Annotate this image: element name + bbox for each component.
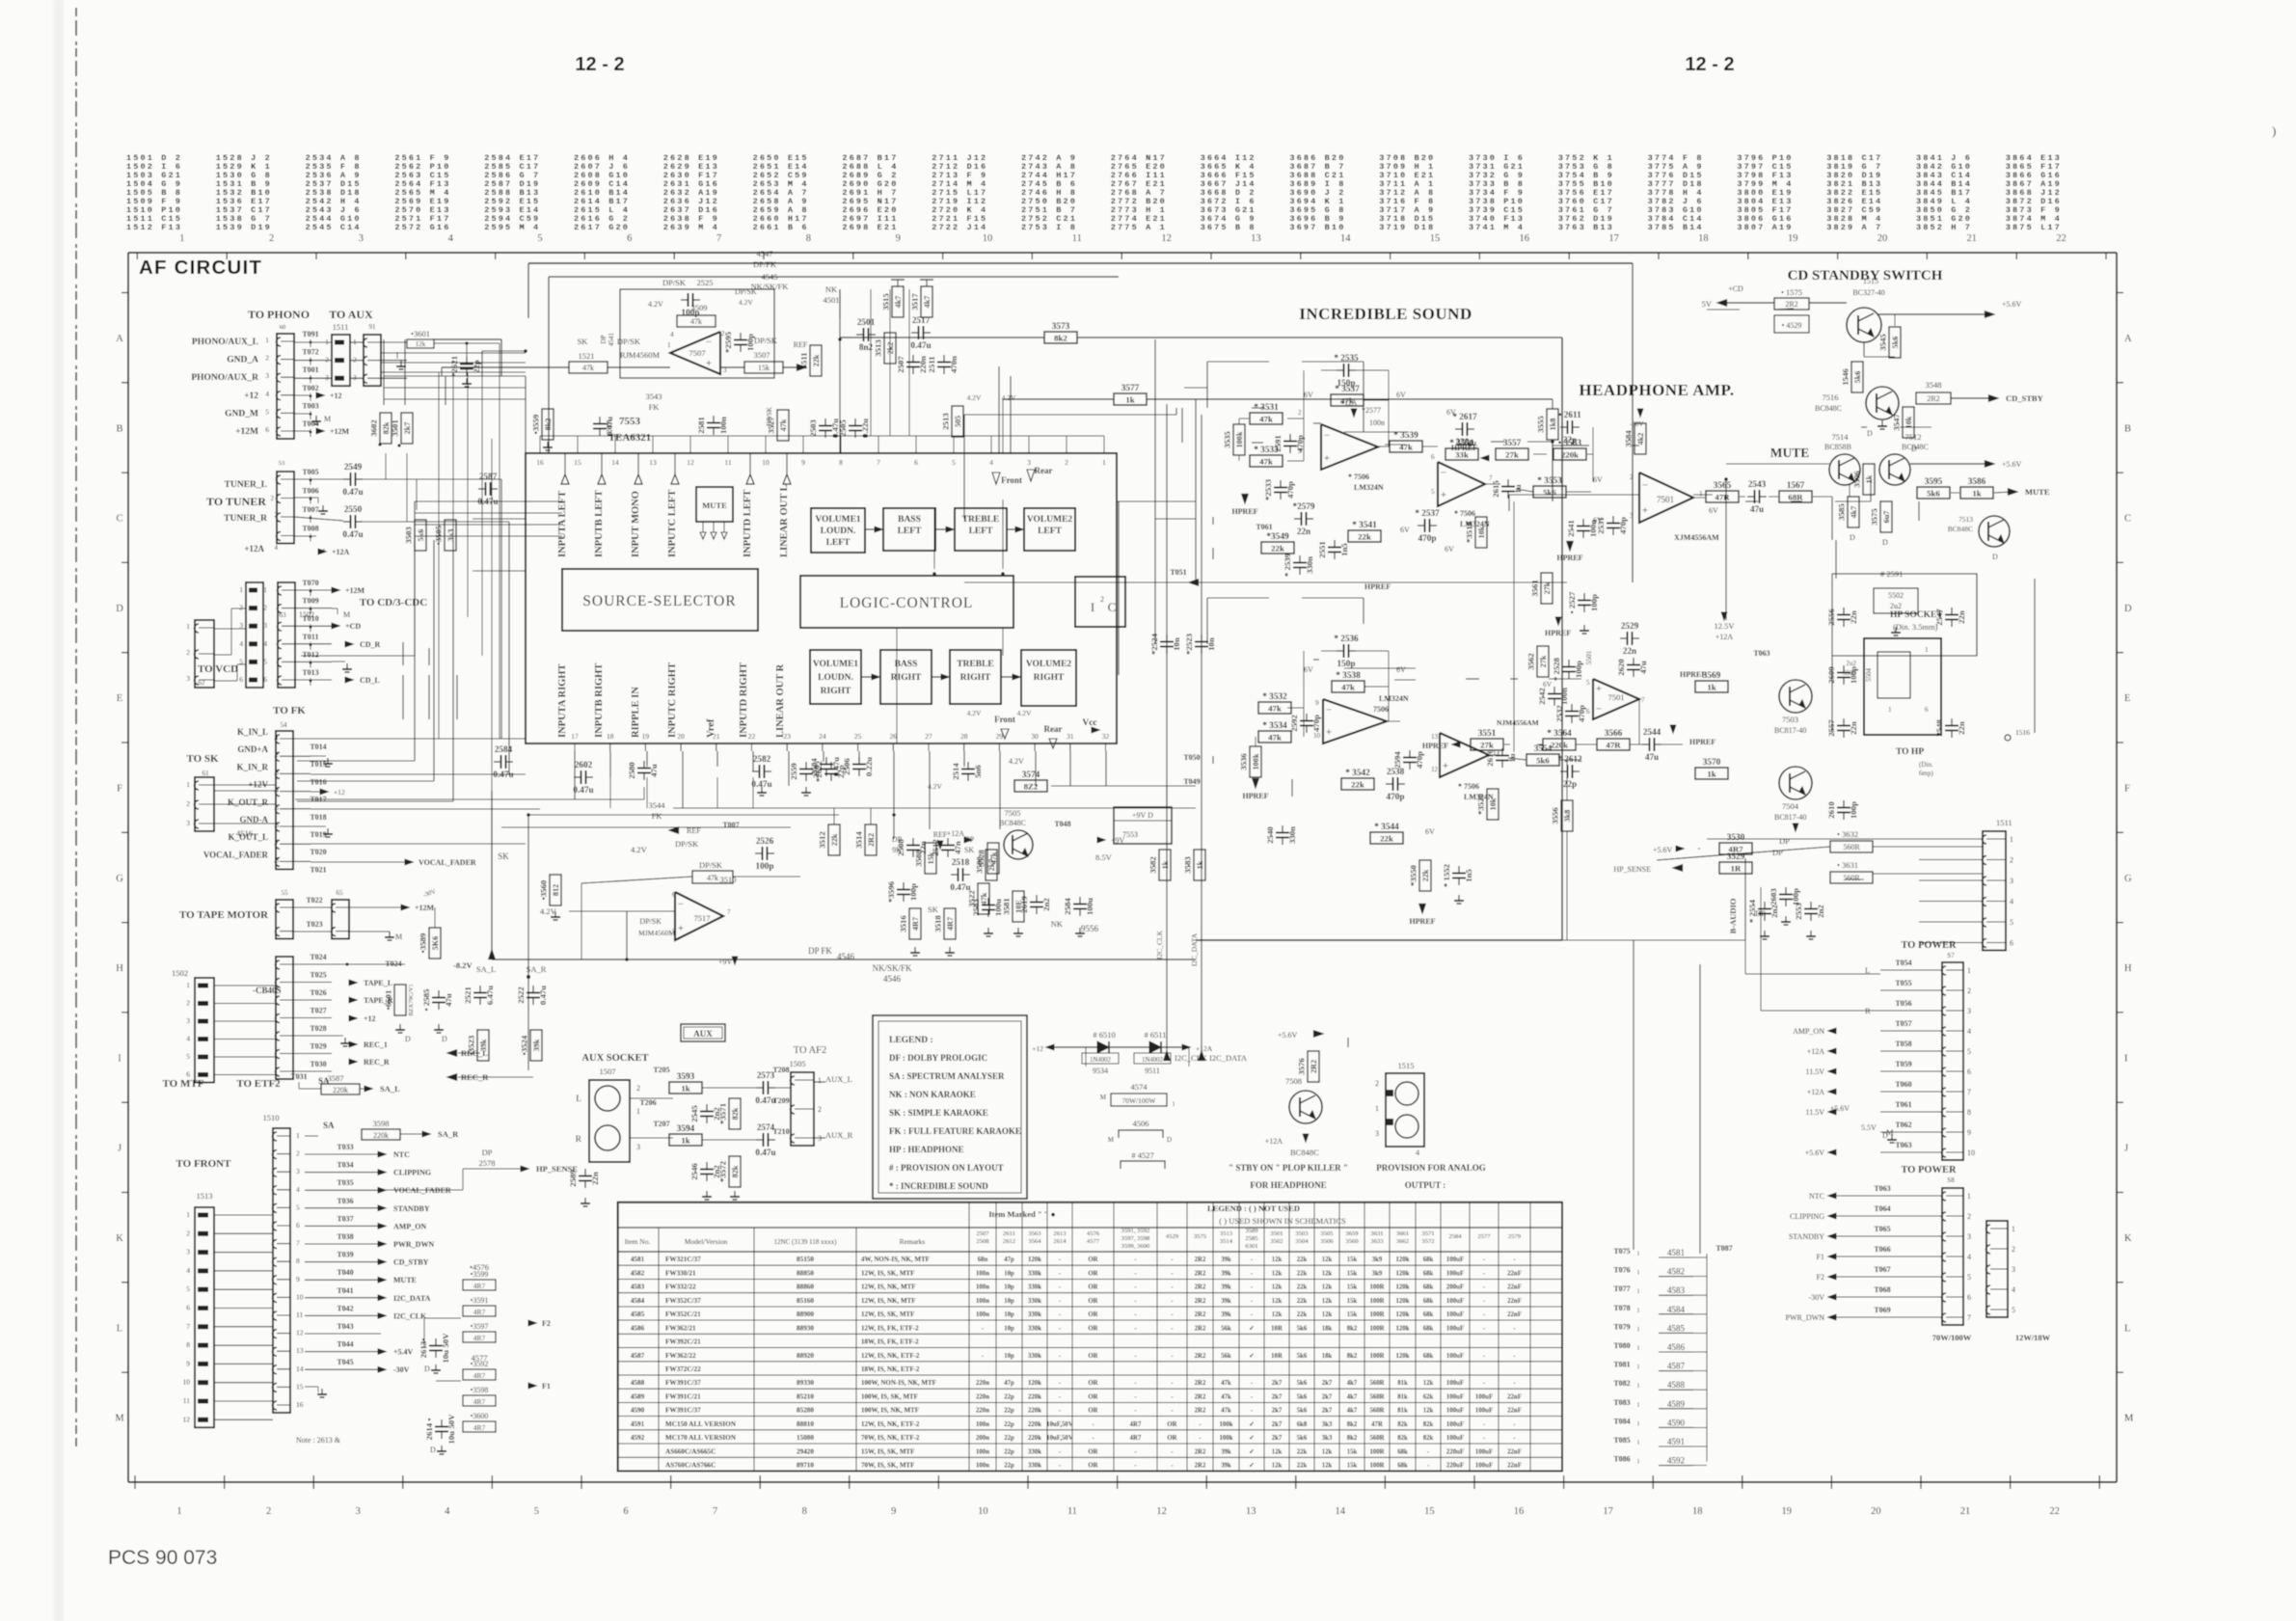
svg-text:4591: 4591 (631, 1420, 645, 1428)
svg-text:7505: 7505 (1005, 808, 1021, 818)
svg-text:4587: 4587 (631, 1352, 645, 1360)
svg-text:12k: 12k (1423, 1408, 1434, 1415)
svg-text:3501: 3501 (1270, 1230, 1283, 1237)
svg-text:K_IN_R: K_IN_R (236, 762, 268, 771)
svg-text:BC848C: BC848C (1815, 404, 1842, 413)
svg-text:3: 3 (265, 371, 269, 380)
svg-text:88900: 88900 (797, 1310, 814, 1318)
svg-text:I2C_CLK: I2C_CLK (1155, 930, 1164, 959)
svg-text:T072: T072 (302, 348, 318, 357)
svg-text:5k6: 5k6 (1297, 1353, 1308, 1360)
svg-text:F: F (2124, 784, 2130, 795)
svg-text:4: 4 (2012, 1285, 2015, 1294)
svg-text:5: 5 (537, 233, 542, 244)
svg-text:*2579: *2579 (1293, 501, 1315, 511)
svg-text:INPUTC LEFT: INPUTC LEFT (667, 490, 678, 557)
svg-text:LM324N: LM324N (1379, 694, 1409, 703)
svg-text:82k: 82k (1397, 1421, 1408, 1428)
svg-text:1k: 1k (1707, 682, 1715, 691)
svg-text:2594: 2594 (1392, 751, 1402, 769)
svg-text:D: D (2124, 604, 2132, 614)
svg-text:88860: 88860 (797, 1283, 814, 1291)
svg-text:3661: 3661 (1396, 1230, 1409, 1237)
svg-text:2: 2 (186, 1229, 190, 1237)
svg-text:5: 5 (186, 1052, 190, 1061)
svg-text:47u: 47u (1750, 504, 1764, 514)
svg-text:4R7: 4R7 (1130, 1421, 1142, 1428)
svg-text:4k2: 4k2 (1636, 433, 1645, 446)
svg-text:470p: 470p (1285, 481, 1295, 499)
svg-text:2579: 2579 (1508, 1233, 1522, 1240)
svg-text:10u 50V: 10u 50V (441, 1333, 450, 1364)
svg-text:REF: REF (933, 830, 948, 839)
svg-text:4: 4 (275, 544, 279, 552)
svg-text:12NC (3139 118 xxxx): 12NC (3139 118 xxxx) (774, 1238, 838, 1246)
svg-text:F2: F2 (542, 1319, 551, 1328)
svg-text:22n: 22n (1957, 610, 1966, 624)
svg-text:* 3564: * 3564 (1547, 729, 1572, 739)
svg-text:10p: 10p (1004, 1353, 1014, 1360)
svg-text:4506: 4506 (1133, 1119, 1149, 1128)
svg-text:812: 812 (552, 884, 560, 896)
svg-text:7: 7 (186, 1322, 190, 1331)
svg-text:FK : FULL FEATURE KARAOKE: FK : FULL FEATURE KARAOKE (889, 1126, 1021, 1136)
svg-text:1512 F13: 1512 F13 (126, 223, 182, 232)
svg-text:T082: T082 (1613, 1379, 1630, 1388)
svg-text:30: 30 (1031, 732, 1039, 741)
svg-text:3557: 3557 (1503, 439, 1522, 448)
svg-text:330k: 330k (1028, 1448, 1041, 1455)
svg-text:T087: T087 (1715, 1244, 1732, 1253)
svg-text:12: 12 (687, 458, 694, 467)
svg-text:•3560: •3560 (539, 879, 549, 900)
svg-text:5: 5 (263, 657, 267, 665)
svg-text:DP: DP (600, 335, 608, 343)
svg-text:+12: +12 (334, 788, 345, 797)
svg-text:6: 6 (276, 822, 280, 829)
svg-text:2545 C14: 2545 C14 (306, 223, 362, 232)
svg-text:+9V D: +9V D (1132, 811, 1153, 820)
svg-text:68k: 68k (1423, 1271, 1434, 1278)
svg-text:3: 3 (1027, 458, 1031, 467)
svg-text:100p: 100p (756, 861, 774, 871)
svg-text:2: 2 (2012, 1245, 2015, 1254)
svg-text:1k: 1k (1125, 394, 1134, 404)
svg-text:+5.6V: +5.6V (1653, 846, 1673, 854)
svg-text:2R2: 2R2 (1785, 300, 1797, 309)
svg-text:DP/SK: DP/SK (699, 860, 723, 870)
svg-text:2578: 2578 (479, 1158, 496, 1168)
svg-text:T040: T040 (337, 1268, 353, 1277)
svg-text:120k: 120k (1028, 1380, 1041, 1387)
svg-text:F: F (117, 784, 122, 795)
svg-text:1k: 1k (1161, 860, 1170, 869)
svg-text:27k: 27k (1480, 740, 1494, 749)
svg-text:3509: 3509 (691, 303, 708, 312)
svg-text:82k: 82k (731, 1165, 740, 1177)
svg-text:T030: T030 (310, 1060, 326, 1068)
svg-text:3575: 3575 (1870, 508, 1879, 526)
svg-text:13: 13 (649, 458, 657, 467)
svg-text:2603: 2603 (1769, 888, 1778, 905)
svg-text:2584: 2584 (1448, 1233, 1462, 1240)
svg-text:47u: 47u (649, 764, 659, 777)
svg-text:T020: T020 (310, 848, 326, 856)
svg-text:D: D (1882, 1131, 1888, 1140)
svg-text:3562: 3562 (1526, 653, 1536, 670)
svg-text:ʇ: ʇ (1637, 1458, 1639, 1466)
svg-text:2557: 2557 (1826, 719, 1836, 737)
svg-text:39k: 39k (1221, 1448, 1231, 1455)
svg-text:* 2554: * 2554 (1747, 899, 1757, 923)
svg-text:3503: 3503 (1295, 1230, 1309, 1237)
svg-text:100n: 100n (976, 1463, 989, 1470)
svg-text:39k: 39k (1221, 1298, 1231, 1305)
svg-text:4.2V: 4.2V (1017, 709, 1032, 717)
svg-text:T006: T006 (302, 487, 318, 496)
svg-text:4582: 4582 (1667, 1267, 1685, 1277)
svg-text:3530: 3530 (1727, 833, 1745, 843)
svg-text:+: + (1596, 683, 1602, 694)
svg-text:T009: T009 (302, 597, 318, 606)
svg-text:3573: 3573 (1052, 322, 1070, 332)
svg-text:220n: 220n (976, 1380, 989, 1387)
svg-text:2R2: 2R2 (1195, 1271, 1206, 1278)
svg-text:7503: 7503 (1782, 715, 1798, 724)
svg-text:OR: OR (1088, 1298, 1097, 1305)
svg-text:14: 14 (1340, 233, 1351, 244)
svg-text:BASS: BASS (895, 660, 918, 669)
svg-text:VOCAL_FADER: VOCAL_FADER (203, 850, 269, 859)
svg-text:47n: 47n (953, 841, 962, 854)
svg-text:T042: T042 (337, 1304, 353, 1312)
svg-text:+12: +12 (330, 392, 342, 400)
svg-text:47k: 47k (1221, 1393, 1231, 1400)
svg-text:K_OUT_R: K_OUT_R (228, 797, 269, 807)
svg-text:1: 1 (1699, 490, 1703, 498)
svg-text:22: 22 (2049, 1506, 2060, 1517)
svg-text:T028: T028 (310, 1024, 326, 1033)
svg-text:100k: 100k (1220, 1435, 1233, 1442)
svg-text:CD_R: CD_R (360, 640, 381, 649)
svg-text:GND+A: GND+A (237, 744, 268, 754)
svg-text:DP/SK: DP/SK (617, 337, 641, 346)
svg-text:J: J (2124, 1144, 2128, 1154)
svg-text:4k7: 4k7 (894, 296, 903, 309)
svg-text:2k7: 2k7 (1272, 1408, 1283, 1415)
svg-text:✓: ✓ (1249, 1421, 1255, 1428)
svg-text:MUTE: MUTE (2025, 487, 2050, 497)
svg-text:4592: 4592 (631, 1434, 645, 1442)
svg-text:68k: 68k (1423, 1325, 1434, 1332)
svg-text:3829 A 7: 3829 A 7 (1826, 223, 1882, 232)
svg-text:+9V: +9V (718, 958, 733, 966)
svg-text:18W, IS, FK, ETF-2: 18W, IS, FK, ETF-2 (861, 1338, 919, 1346)
svg-text:(Din. 3.5mm): (Din. 3.5mm) (1893, 622, 1938, 632)
svg-text:−: − (1596, 703, 1602, 715)
svg-text:70W, IS, NK, ETF-2: 70W, IS, NK, ETF-2 (861, 1434, 920, 1442)
svg-text:22k: 22k (1297, 1271, 1308, 1278)
svg-text:82k: 82k (1423, 1421, 1434, 1428)
svg-text:I2C_DATA: I2C_DATA (1190, 932, 1199, 966)
svg-text:15k: 15k (1347, 1284, 1358, 1291)
svg-text:9: 9 (896, 233, 901, 244)
svg-text:OR: OR (1088, 1271, 1097, 1278)
svg-text:100R: 100R (1369, 1284, 1384, 1291)
svg-text:15: 15 (296, 1382, 304, 1391)
svg-text:+12: +12 (364, 1014, 376, 1023)
svg-text:−: − (706, 337, 712, 348)
svg-text:+12A: +12A (332, 548, 350, 556)
svg-text:10: 10 (762, 458, 770, 467)
svg-text:J: J (118, 1144, 122, 1154)
svg-text:56k: 56k (1221, 1353, 1231, 1360)
svg-text:3875 L17: 3875 L17 (2006, 223, 2062, 232)
svg-text:AS660C/AS665C: AS660C/AS665C (665, 1447, 716, 1455)
svg-text:3599, 3600: 3599, 3600 (1121, 1243, 1150, 1250)
svg-text:47k: 47k (1259, 414, 1273, 423)
svg-text:4585: 4585 (631, 1310, 645, 1318)
svg-text:3507: 3507 (754, 350, 770, 360)
svg-text:FW362/22: FW362/22 (665, 1352, 696, 1360)
svg-text:22k: 22k (1271, 543, 1284, 553)
svg-text:2609: 2609 (1826, 666, 1836, 684)
svg-text:4.2V: 4.2V (739, 298, 753, 307)
svg-text:2k7: 2k7 (1322, 1393, 1333, 1400)
svg-text:M: M (343, 610, 350, 619)
svg-text:RIGHT: RIGHT (891, 673, 922, 683)
svg-text:T024: T024 (385, 959, 401, 968)
svg-text:22k: 22k (1297, 1256, 1308, 1263)
svg-text:6: 6 (1586, 708, 1590, 716)
svg-text:# : PROVISION ON LAYOUT: # : PROVISION ON LAYOUT (889, 1163, 1004, 1173)
svg-text:12.5V: 12.5V (1714, 621, 1735, 631)
svg-text:5: 5 (296, 1202, 300, 1211)
svg-text:• 1575: • 1575 (1781, 287, 1802, 297)
svg-text:47k: 47k (1399, 442, 1413, 451)
svg-text:17: 17 (1603, 1506, 1613, 1517)
svg-text:*2533: *2533 (1263, 478, 1273, 500)
svg-text:Note : 2613 &: Note : 2613 & (296, 1436, 341, 1445)
svg-text:FW391C/37: FW391C/37 (665, 1379, 701, 1387)
svg-text:4: 4 (1416, 1148, 1419, 1157)
svg-text:OUTPUT :: OUTPUT : (1405, 1180, 1446, 1190)
svg-text:22k: 22k (1297, 1284, 1308, 1291)
svg-text:TO FRONT: TO FRONT (176, 1158, 232, 1170)
svg-text:T025: T025 (310, 971, 326, 980)
svg-text:NJM4556AM: NJM4556AM (1497, 718, 1539, 727)
svg-text:OR: OR (1167, 1435, 1176, 1442)
svg-text:SK: SK (928, 905, 939, 914)
svg-text:15k: 15k (1347, 1256, 1358, 1263)
svg-text:39k: 39k (1221, 1271, 1231, 1278)
svg-text:+: + (1441, 490, 1446, 501)
svg-text:G: G (2124, 874, 2132, 884)
svg-text:1502: 1502 (172, 968, 188, 978)
svg-text:4547: 4547 (757, 249, 773, 258)
svg-text:10p: 10p (1004, 1311, 1014, 1318)
svg-text:FK: FK (652, 811, 663, 821)
svg-text:FW321C/37: FW321C/37 (665, 1256, 701, 1263)
svg-text:7504: 7504 (1782, 801, 1799, 811)
svg-text:0.47u: 0.47u (755, 1095, 775, 1105)
svg-text:3556: 3556 (1551, 807, 1560, 824)
svg-text:REC_R: REC_R (364, 1058, 390, 1067)
svg-text:1: 1 (186, 1210, 190, 1219)
svg-text:12k: 12k (1322, 1271, 1333, 1278)
svg-text:4586: 4586 (631, 1324, 645, 1332)
svg-text:22n: 22n (1623, 646, 1636, 656)
svg-text:SK: SK (498, 851, 509, 861)
svg-text:4: 4 (989, 458, 993, 467)
svg-text:47k: 47k (582, 364, 594, 372)
svg-text:+5.6V: +5.6V (1805, 1148, 1825, 1157)
svg-text:CLIPPING: CLIPPING (1790, 1212, 1824, 1221)
svg-text:AMP_ON: AMP_ON (393, 1222, 426, 1230)
svg-text:* 3542: * 3542 (1345, 769, 1370, 778)
svg-text:3572: 3572 (1421, 1238, 1434, 1245)
svg-text:DP/FK: DP/FK (753, 259, 777, 269)
svg-text:LEFT: LEFT (898, 527, 922, 536)
svg-text:ʇ: ʇ (1637, 1325, 1639, 1333)
svg-text:3k9: 3k9 (1372, 1256, 1383, 1263)
svg-text:9511: 9511 (1145, 1067, 1160, 1075)
svg-text:100k: 100k (1235, 431, 1244, 447)
svg-text:9: 9 (1315, 699, 1319, 707)
svg-text:7553: 7553 (1122, 830, 1138, 839)
svg-text:NTC: NTC (1809, 1192, 1824, 1201)
svg-text:✓: ✓ (1249, 1325, 1255, 1332)
svg-text:VOLUME2: VOLUME2 (1026, 660, 1072, 669)
svg-text:OR: OR (1088, 1325, 1097, 1332)
svg-text:AUX_R: AUX_R (825, 1130, 853, 1140)
svg-text:L: L (2124, 1323, 2130, 1334)
svg-text:47k: 47k (707, 874, 718, 882)
svg-text:470p: 470p (1387, 792, 1405, 801)
svg-text:4: 4 (186, 1266, 190, 1275)
svg-text:AF CIRCUIT: AF CIRCUIT (139, 257, 262, 279)
svg-text:SA_L: SA_L (380, 1084, 400, 1094)
svg-text:4k7: 4k7 (1347, 1408, 1358, 1415)
svg-text:100uF: 100uF (1446, 1311, 1464, 1318)
svg-text:8: 8 (276, 856, 280, 864)
svg-text:4588: 4588 (1667, 1380, 1686, 1390)
svg-text:12: 12 (1161, 233, 1172, 244)
svg-text:68k: 68k (1423, 1284, 1434, 1291)
svg-text:10: 10 (1967, 1148, 1975, 1157)
svg-text:2620: 2620 (1616, 659, 1626, 676)
svg-text:5: 5 (265, 407, 269, 416)
svg-text:1510: 1510 (263, 1113, 280, 1122)
svg-text:1: 1 (636, 1107, 640, 1116)
svg-text:HPREF: HPREF (1364, 582, 1391, 591)
svg-text:21: 21 (1960, 1506, 1971, 1517)
svg-text:47u: 47u (1645, 752, 1659, 762)
svg-text:NK : NON KARAOKE: NK : NON KARAOKE (889, 1090, 976, 1099)
svg-text:TO TUNER: TO TUNER (206, 495, 266, 508)
svg-text:+5.6V: +5.6V (2002, 300, 2022, 309)
svg-text:+12A: +12A (1807, 1088, 1825, 1096)
svg-text:LEFT: LEFT (969, 527, 993, 536)
svg-text:2507: 2507 (976, 1230, 989, 1237)
svg-text:4.2V: 4.2V (540, 906, 557, 916)
svg-text:22nF: 22nF (1507, 1448, 1522, 1455)
svg-text:2543: 2543 (1748, 479, 1767, 489)
svg-text:6: 6 (263, 675, 267, 684)
svg-text:12k: 12k (1322, 1448, 1333, 1455)
svg-text:* 2617: * 2617 (1452, 412, 1477, 421)
svg-text:2501: 2501 (857, 317, 876, 327)
svg-text:470p: 470p (1577, 705, 1586, 722)
svg-text:4585: 4585 (1667, 1323, 1686, 1333)
svg-text:1513: 1513 (197, 1191, 213, 1201)
svg-text:100n: 100n (976, 1448, 989, 1455)
svg-text:T061: T061 (1895, 1100, 1911, 1109)
svg-text:TO AUX: TO AUX (329, 308, 373, 321)
svg-text:*2621: *2621 (449, 356, 459, 377)
svg-text:6u7: 6u7 (1882, 511, 1891, 524)
svg-text:3511: 3511 (799, 352, 809, 368)
svg-text:7: 7 (713, 1506, 717, 1517)
svg-text:12W, IS, SK, MTF: 12W, IS, SK, MTF (861, 1270, 914, 1278)
svg-text:* 2537: * 2537 (1415, 508, 1440, 518)
svg-text:22nF: 22nF (1507, 1463, 1522, 1470)
svg-text:2661 B 6: 2661 B 6 (753, 223, 809, 232)
svg-text:6: 6 (672, 891, 676, 899)
svg-text:VOLUME2: VOLUME2 (1027, 515, 1073, 525)
svg-text:22k: 22k (1297, 1448, 1308, 1455)
svg-text:3506: 3506 (1320, 1238, 1334, 1245)
svg-text:2508: 2508 (976, 1238, 989, 1245)
svg-text:3719 D18: 3719 D18 (1379, 223, 1435, 232)
svg-text:2614: 2614 (1053, 1238, 1067, 1245)
svg-text:+12M: +12M (330, 427, 350, 436)
svg-text:12W/18W: 12W/18W (2015, 1333, 2051, 1342)
svg-text:68k: 68k (1423, 1353, 1434, 1360)
svg-text:3512: 3512 (818, 831, 827, 849)
svg-text:1: 1 (1888, 706, 1892, 714)
svg-text:1k: 1k (1196, 860, 1204, 869)
svg-text:Vcc: Vcc (1082, 718, 1096, 728)
svg-text:2R2: 2R2 (1195, 1284, 1206, 1291)
svg-text:4590: 4590 (631, 1407, 645, 1415)
svg-text:4k7: 4k7 (1347, 1380, 1358, 1387)
svg-text:16: 16 (1514, 1506, 1525, 1517)
svg-text:220k: 220k (1028, 1393, 1041, 1400)
svg-text:3: 3 (636, 1143, 640, 1151)
svg-text:LOUDN.: LOUDN. (821, 527, 856, 536)
svg-text:22nF: 22nF (1507, 1408, 1522, 1415)
svg-text:560R: 560R (1843, 874, 1860, 882)
svg-text:5: 5 (186, 1284, 190, 1293)
svg-text:5.5V: 5.5V (1861, 1123, 1877, 1132)
svg-text:T029: T029 (310, 1042, 326, 1051)
svg-text:M: M (1100, 1094, 1107, 1101)
svg-text:22p: 22p (1004, 1408, 1014, 1415)
svg-text:2: 2 (1375, 1079, 1379, 1088)
svg-text:T062: T062 (1895, 1121, 1911, 1129)
svg-text:INPUTB LEFT: INPUTB LEFT (594, 490, 605, 557)
svg-text:GND_M: GND_M (225, 409, 258, 419)
svg-text:# 6510: # 6510 (1093, 1030, 1115, 1040)
svg-text:2582: 2582 (753, 754, 771, 764)
svg-text:2: 2 (1630, 473, 1634, 481)
svg-text:1: 1 (2010, 835, 2013, 844)
svg-text:3545: 3545 (1878, 334, 1888, 351)
svg-text:NTC: NTC (393, 1150, 410, 1159)
svg-text:27k: 27k (1539, 655, 1548, 667)
svg-text:DP: DP (1779, 836, 1790, 846)
